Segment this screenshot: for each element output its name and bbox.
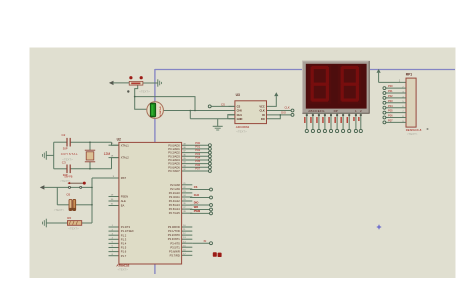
svg-text:P3.2/INT0: P3.2/INT0 [168,233,181,237]
capacitor C6 (electrolytic) [69,199,72,210]
capacitor C3 [66,165,68,174]
svg-text:P0.4/AD4: P0.4/AD4 [168,158,180,162]
power terminal +5V (RP1) [377,69,381,73]
svg-text:GND: GND [237,117,243,121]
svg-text:P1.0/T2: P1.0/T2 [121,225,131,229]
svg-text:P3.5/T1: P3.5/T1 [170,245,180,249]
svg-text:<TEXT>: <TEXT> [139,89,150,93]
svg-text:ALE: ALE [121,199,126,203]
junction [91,187,93,189]
svg-text:ADC0832: ADC0832 [236,125,250,129]
wire button rail down to C6 rail [56,187,58,204]
wire button SW1 to ground [143,82,158,84]
wire P3.4 to terminal [192,242,209,244]
pin stubs left side (XTAL1 XTAL2 PSEN ALE EA) [109,144,119,146]
power terminal +5V (ADC) [274,92,278,96]
wire down to ground rail [189,111,191,119]
wire SW1 lower lead down to speaker LS1 left pin [135,85,147,109]
push button SW1 (top-left) [129,76,132,79]
svg-text:IN: IN [204,239,207,243]
wire bottom rail to XTAL2 pin [112,158,119,169]
RP1 terminals [383,87,386,90]
svg-text:P2.4/A12: P2.4/A12 [169,199,181,203]
svg-text:U2: U2 [117,138,121,142]
svg-text:<TEXT>: <TEXT> [54,208,65,212]
svg-text:<TEXT>: <TEXT> [407,132,418,136]
svg-text:PSEN: PSEN [121,195,128,199]
svg-text:P1.4: P1.4 [121,242,127,246]
MCU U2 AT89C52 body [119,142,182,264]
svg-text:P0.6/AD6: P0.6/AD6 [168,165,180,169]
ground G3 (left of crystal) [45,151,47,160]
svg-text:P07: P07 [388,119,393,123]
wire RST vertical rail [91,178,93,223]
display segment pin wires [306,113,308,129]
speaker LS1 [147,102,164,119]
svg-text:<TEXT>: <TEXT> [68,227,79,231]
svg-text:P07: P07 [195,167,200,171]
svg-text:P2.3/A11: P2.3/A11 [169,195,180,199]
display digit pin wires [355,113,357,129]
resistor R0 [68,221,82,226]
ground G4 (left of R0) [45,219,47,228]
svg-text:PWM: PWM [194,209,200,213]
svg-text:EA: EA [121,204,125,208]
svg-text:P1.7: P1.7 [121,254,127,258]
digit 1 segments [312,66,328,69]
junction [89,141,91,143]
digit 2 cell [338,65,362,104]
stray grey dot [127,90,129,92]
svg-text:U3: U3 [236,93,240,97]
svg-text:CS: CS [221,102,225,106]
terminal T0 [210,242,213,245]
wire XTAL1 top rail [54,141,67,143]
pin stubs P3.0-P3.7 [182,226,193,228]
wire input arrow to button SW1 [109,81,114,85]
digit 2 segments [342,66,358,69]
terminals CS CLK DIO WR PWM [210,188,213,191]
svg-text:P0.3/AD3: P0.3/AD3 [168,154,180,158]
svg-text:P01: P01 [388,89,393,93]
svg-text:P1.3: P1.3 [121,237,127,241]
svg-text:P00: P00 [388,84,393,88]
svg-text:DP: DP [334,109,338,113]
svg-text:P3.0/RXD: P3.0/RXD [168,225,180,229]
crystal X1 12MHz [89,142,91,150]
wire ADC CH1 to ground rail [228,115,235,119]
junction [134,96,136,98]
push button SW2 (reset) [69,186,71,188]
svg-text:SPEAKER: SPEAKER [159,106,162,117]
RP1 pin wires [386,87,406,89]
wire left vertical of crystal cluster [53,142,55,169]
svg-text:P3.3/INT1: P3.3/INT1 [168,237,181,241]
wires P2 to control terminals [190,189,210,191]
pin stubs P2.0-P2.7 [182,184,193,186]
svg-text:DI: DI [262,113,265,117]
junction [194,110,196,112]
digit 1 cell [308,65,332,104]
display wire labels (rotated) [304,117,305,123]
svg-text:P2.5/A13: P2.5/A13 [169,203,181,207]
svg-text:12M: 12M [104,152,111,156]
pin stubs P1.0-P1.7 [109,226,119,228]
svg-text:CH1: CH1 [237,113,243,117]
wire R0 row [46,222,67,224]
svg-text:P0.5/AD5: P0.5/AD5 [168,162,180,166]
svg-text:VCC: VCC [259,105,265,109]
terminal CS [208,105,211,108]
svg-text:WR: WR [194,205,198,209]
junction [190,110,192,112]
schematic sheet (beige) [30,48,456,279]
wire XTAL2 bottom rail [54,168,67,170]
svg-text:P3.7/RD: P3.7/RD [170,253,180,257]
svg-text:<TEXT>: <TEXT> [118,268,129,272]
svg-text:P1.5: P1.5 [121,246,127,250]
svg-text:P04: P04 [388,104,393,108]
svg-text:C2: C2 [62,133,66,137]
svg-text:P0.7/AD7: P0.7/AD7 [168,169,180,173]
ground G1 (right of SW1) [157,79,159,86]
wire stub to ground G3 [46,154,53,156]
display inner panel [306,64,367,109]
red annotation text (chinese) [213,252,217,257]
junction [280,114,282,116]
svg-text:DIO: DIO [281,111,286,115]
svg-text:CLK: CLK [194,193,199,197]
wire terminal CS to ADC CS pin [211,105,235,107]
sheet border left (blue) [154,69,156,274]
wire ADC CLK to terminal [267,110,292,112]
svg-text:CH0: CH0 [237,109,243,113]
svg-text:RP1: RP1 [406,73,413,77]
ground G2 (below ADC) [217,119,219,127]
wire RP1 common pin to power [379,81,406,83]
svg-text:DIO: DIO [194,201,199,205]
svg-text:P3.6/WR: P3.6/WR [169,249,180,253]
svg-text:P3.1/TXD: P3.1/TXD [168,229,180,233]
svg-text:<TEXT>: <TEXT> [62,158,73,162]
junction [91,204,93,206]
svg-text:P05: P05 [388,109,393,113]
svg-text:CRYSTAL: CRYSTAL [61,152,78,156]
svg-text:<TEXT>: <TEXT> [236,130,247,134]
wire ADC DI to terminal [267,114,292,116]
svg-text:C6: C6 [66,193,70,197]
resistor pack RP1 body [406,78,416,127]
7-segment display DS1 frame [303,61,370,114]
wire C6 row [57,204,68,206]
svg-text:XTAL2: XTAL2 [121,156,130,160]
ADC left pin stubs [229,105,235,107]
terminal DIO [291,113,294,116]
svg-text:P06: P06 [388,114,393,118]
svg-text:P2.6/A14: P2.6/A14 [169,207,181,211]
wire speaker LS1 right pin to ADC CH0 [163,110,235,112]
svg-text:P2.0/A8: P2.0/A8 [170,183,180,187]
svg-text:ABCDEFG: ABCDEFG [308,109,325,113]
display segment pin terminals [305,129,308,132]
wire reset button row [40,185,45,189]
svg-text:P1.1/T2EX: P1.1/T2EX [121,229,134,233]
svg-text:XTAL1: XTAL1 [121,143,130,147]
svg-text:CLK: CLK [259,109,264,113]
svg-text:P2.7/A15: P2.7/A15 [169,211,181,215]
sheet border top (blue) [155,69,455,71]
svg-text:P2.2/A10: P2.2/A10 [169,191,181,195]
svg-text:P0.1/AD1: P0.1/AD1 [168,147,180,151]
svg-text:P02: P02 [388,94,393,98]
terminal CLK [291,109,294,112]
svg-text:30P: 30P [63,146,68,150]
svg-text:P1.6: P1.6 [121,250,127,254]
wire ADC DO join DI [267,115,281,119]
svg-text:P1.2: P1.2 [121,233,127,237]
wire top rail to XTAL1 pin [112,142,119,145]
capacitor C2 [66,138,68,147]
svg-text:CS: CS [237,105,241,109]
wire RST pin [92,177,119,179]
stray dot right [427,128,429,130]
wire ADC VCC to power arrow [267,97,277,106]
svg-text:P03: P03 [388,99,393,103]
svg-text:P3.4/T0: P3.4/T0 [170,241,180,245]
svg-text:P0.0/AD0: P0.0/AD0 [168,143,180,147]
wire ground rail to ADC GND pin [190,118,235,120]
wires P0.0-P0.7 to terminals [182,144,209,146]
svg-text:P2.1/A9: P2.1/A9 [170,187,180,191]
svg-text:P0.2/AD2: P0.2/AD2 [168,151,180,155]
svg-text:CLK: CLK [285,106,290,110]
svg-text:<TEXT>: <TEXT> [60,179,71,183]
svg-text:DO: DO [261,117,265,121]
svg-text:RST: RST [121,176,127,180]
svg-text:CS: CS [194,185,198,189]
display digit wire labels [353,117,354,121]
op-amp U3 ADC0832 body [235,101,267,124]
display digit pin terminals [354,129,357,132]
terminals P00-P07 [208,144,211,147]
blue origin marker [377,226,381,228]
wire branch to ADC CH0 (upper route) [135,97,195,111]
svg-text:R0: R0 [67,216,71,220]
